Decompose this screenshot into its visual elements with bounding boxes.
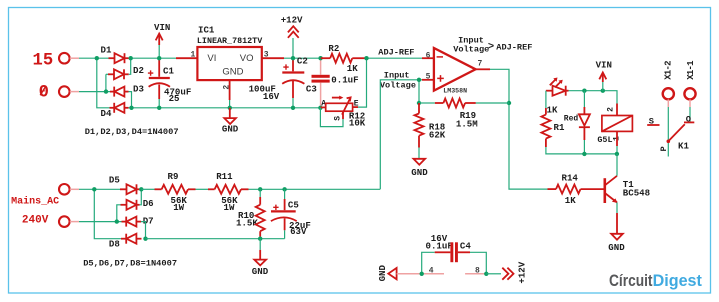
capacitor C5 bbox=[271, 189, 311, 238]
terminal 15 bbox=[33, 51, 80, 70]
svg-text:>: > bbox=[488, 41, 494, 53]
IC1 pin 3 bbox=[262, 50, 284, 59]
svg-text:R11: R11 bbox=[216, 171, 233, 182]
svg-text:C5: C5 bbox=[288, 200, 299, 211]
svg-text:ADJ-REF: ADJ-REF bbox=[496, 42, 532, 52]
junction C3 bbox=[318, 56, 323, 110]
svg-text:Red: Red bbox=[564, 115, 579, 124]
svg-text:C1: C1 bbox=[163, 65, 174, 76]
wire between R9 R11 bbox=[196, 188, 209, 190]
op-amp pin 5 bbox=[422, 72, 434, 81]
svg-text:Input: Input bbox=[384, 71, 410, 81]
LED D9 bbox=[546, 78, 569, 96]
svg-text:X1-2: X1-2 bbox=[664, 61, 674, 80]
svg-text:Mains_AC: Mains_AC bbox=[11, 195, 59, 207]
wire mains bottom net bbox=[79, 205, 122, 222]
junction C2 bbox=[291, 56, 295, 110]
svg-text:GND: GND bbox=[222, 124, 239, 135]
diode D3 bbox=[110, 83, 144, 96]
terminal Mains_AC bottom 240V bbox=[22, 214, 79, 227]
terminal Mains_AC top bbox=[11, 184, 79, 207]
resistor R10 bbox=[236, 189, 265, 238]
diode D1 bbox=[101, 44, 129, 63]
svg-text:1W: 1W bbox=[224, 202, 235, 213]
resistor R11 bbox=[208, 171, 249, 213]
potentiometer R12 bbox=[320, 96, 365, 129]
resistor R9 bbox=[141, 171, 195, 213]
svg-text:+12V: +12V bbox=[517, 261, 528, 283]
svg-text:16V: 16V bbox=[263, 91, 280, 102]
svg-text:R2: R2 bbox=[328, 43, 339, 54]
resistor R2 bbox=[321, 43, 367, 74]
svg-text:2: 2 bbox=[607, 107, 616, 112]
svg-text:0: 0 bbox=[39, 84, 49, 103]
svg-text:+12V: +12V bbox=[281, 15, 303, 26]
regulator IC1 bbox=[197, 24, 263, 80]
diode Red (indicator) bbox=[564, 91, 590, 154]
svg-text:Círcuit: Círcuit bbox=[609, 272, 653, 290]
op-amp U1 LM358N bbox=[434, 48, 476, 94]
svg-text:K1: K1 bbox=[678, 140, 689, 151]
diode D5 bbox=[109, 174, 141, 194]
svg-text:7: 7 bbox=[478, 59, 483, 68]
op-amp pin 7 bbox=[476, 59, 490, 69]
svg-text:1.5K: 1.5K bbox=[236, 217, 258, 228]
svg-text:15: 15 bbox=[33, 51, 54, 70]
label Input Voltage (pin5) bbox=[380, 71, 416, 91]
logo CircuitDigest bbox=[609, 272, 702, 290]
svg-text:D2: D2 bbox=[133, 65, 144, 76]
svg-text:10K: 10K bbox=[349, 117, 366, 128]
svg-text:VI: VI bbox=[207, 53, 216, 64]
junction IC gnd bbox=[228, 106, 232, 110]
resistor R1 bbox=[541, 91, 617, 154]
svg-text:GND: GND bbox=[608, 242, 625, 253]
svg-text:63V: 63V bbox=[290, 226, 307, 237]
resistor R14 bbox=[548, 172, 604, 205]
svg-text:Voltage: Voltage bbox=[453, 45, 489, 55]
terminal X1-2 bbox=[663, 61, 674, 107]
resistor R19 bbox=[419, 99, 509, 130]
wire D7 anode down bbox=[141, 222, 146, 239]
junction dots relay rail bbox=[582, 152, 619, 156]
svg-text:Digest: Digest bbox=[653, 272, 703, 290]
svg-text:GND: GND bbox=[252, 266, 269, 277]
svg-text:VO: VO bbox=[240, 53, 254, 64]
svg-text:VIN: VIN bbox=[154, 22, 170, 33]
svg-text:D1,D2,D3,D4=1N4007: D1,D2,D3,D4=1N4007 bbox=[85, 127, 179, 137]
wire mains top net bbox=[79, 189, 121, 238]
svg-text:GND: GND bbox=[411, 167, 428, 178]
power flag VIN right bbox=[596, 60, 612, 91]
svg-text:D4: D4 bbox=[101, 108, 112, 119]
capacitor C1 bbox=[148, 58, 191, 108]
svg-text:IC1: IC1 bbox=[198, 24, 215, 35]
wire D2 cathode to top rail bbox=[129, 58, 131, 74]
power flag +12V right bbox=[486, 261, 527, 283]
diode D8 bbox=[109, 234, 142, 250]
transistor T1 BC548 bbox=[605, 154, 650, 213]
pin 8 stub bbox=[465, 266, 488, 276]
relay contact K1 bbox=[647, 107, 694, 157]
svg-text:X1-1: X1-1 bbox=[686, 60, 696, 80]
svg-text:62K: 62K bbox=[429, 129, 446, 140]
capacitor C4 bbox=[422, 233, 487, 274]
op-amp pin 6 bbox=[422, 51, 434, 60]
diode D7 bbox=[122, 215, 154, 226]
svg-text:VIN: VIN bbox=[596, 60, 612, 71]
svg-text:25: 25 bbox=[169, 93, 180, 104]
junction dots bridge2 bbox=[92, 187, 148, 241]
terminal 0 bbox=[39, 84, 79, 103]
svg-text:1.5M: 1.5M bbox=[456, 119, 478, 130]
label comparator annotation bbox=[453, 36, 532, 55]
wire D6 cathode up bbox=[140, 189, 142, 205]
power flag +12V top bbox=[281, 15, 303, 59]
wire VO rail to R2 bbox=[284, 57, 330, 59]
ground below IC1 bbox=[222, 108, 239, 135]
IC1 pin 2 bbox=[223, 80, 232, 108]
wire net 15-input bbox=[79, 58, 110, 108]
svg-text:D8: D8 bbox=[109, 239, 120, 250]
svg-text:1K: 1K bbox=[347, 63, 358, 74]
svg-text:S: S bbox=[334, 116, 343, 121]
power flag VIN bbox=[154, 22, 170, 58]
svg-text:D7: D7 bbox=[143, 215, 154, 226]
pin 4 stub bbox=[420, 266, 445, 276]
svg-text:LINEAR_7812TV: LINEAR_7812TV bbox=[197, 36, 263, 46]
svg-text:C4: C4 bbox=[460, 240, 471, 251]
wire input-voltage net bbox=[380, 78, 422, 190]
svg-text:0.1uF: 0.1uF bbox=[331, 75, 358, 86]
capacitor C2 bbox=[249, 55, 308, 108]
ground below R10 bbox=[252, 239, 269, 277]
svg-text:G5L: G5L bbox=[597, 135, 612, 145]
svg-text:ADJ-REF: ADJ-REF bbox=[378, 48, 414, 58]
svg-text:D5,D6,D7,D8=1N4007: D5,D6,D7,D8=1N4007 bbox=[83, 258, 177, 268]
svg-text:GND: GND bbox=[377, 264, 388, 281]
svg-text:0.1uF: 0.1uF bbox=[426, 240, 453, 251]
svg-text:D3: D3 bbox=[133, 83, 144, 94]
svg-text:1W: 1W bbox=[173, 202, 184, 213]
wire top rail bbox=[129, 57, 177, 59]
svg-text:R1: R1 bbox=[554, 122, 565, 133]
wire bottom gnd rail bridge2 bbox=[146, 237, 285, 241]
svg-text:D1: D1 bbox=[101, 44, 112, 55]
diode D6 bbox=[121, 198, 154, 210]
resistor R18 bbox=[415, 103, 446, 159]
svg-text:1K: 1K bbox=[565, 195, 576, 206]
ground flag left of C4 bbox=[377, 264, 422, 281]
svg-text:LM358N: LM358N bbox=[443, 87, 467, 94]
svg-text:D6: D6 bbox=[143, 198, 154, 209]
ground below T1 bbox=[608, 213, 625, 253]
capacitor C3 bbox=[306, 59, 359, 107]
svg-text:BC548: BC548 bbox=[623, 188, 650, 199]
wire ADJ-REF net bbox=[358, 56, 422, 107]
svg-text:D5: D5 bbox=[109, 174, 120, 185]
IC1 pin 1 bbox=[176, 50, 197, 59]
svg-text:P: P bbox=[659, 146, 669, 151]
wire LED top rail bbox=[569, 89, 618, 104]
wire op-amp output net bbox=[490, 69, 548, 189]
ground below R18 bbox=[411, 159, 428, 178]
relay K1 coil G5L bbox=[597, 104, 632, 154]
svg-text:240V: 240V bbox=[22, 214, 49, 226]
wire divider output rail bbox=[249, 187, 381, 191]
diode D4 bbox=[101, 103, 129, 119]
svg-text:R14: R14 bbox=[562, 172, 579, 183]
svg-text:R9: R9 bbox=[168, 171, 179, 182]
diode D2 bbox=[108, 65, 144, 79]
svg-text:Voltage: Voltage bbox=[380, 80, 416, 90]
svg-text:C3: C3 bbox=[306, 84, 317, 95]
wire gnd rail bbox=[129, 107, 321, 109]
svg-text:1K: 1K bbox=[547, 104, 558, 115]
wire D3 anode down bbox=[129, 92, 132, 108]
terminal X1-1 bbox=[684, 60, 696, 107]
svg-text:GND: GND bbox=[222, 67, 243, 78]
wire net 0-input bbox=[79, 74, 110, 91]
svg-text:C2: C2 bbox=[297, 55, 308, 66]
junction dots bridge1 bbox=[95, 56, 162, 110]
